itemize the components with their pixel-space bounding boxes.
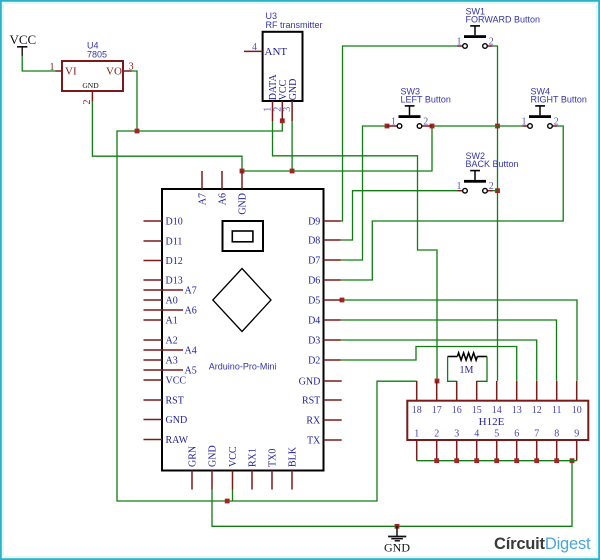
H12E pin 15 (476, 381, 478, 401)
svg-text:3: 3 (454, 428, 459, 439)
right pin D6 (324, 279, 341, 281)
svg-text:GND: GND (82, 81, 99, 90)
H12E pin 4 (476, 440, 478, 461)
svg-text:15: 15 (472, 405, 482, 416)
wire J1 to VCC rail to H12E pin 18 (117, 131, 417, 501)
ground symbol (384, 526, 410, 555)
wire D5 to H12E pin 10 (342, 300, 577, 381)
bottom pin RX1 (251, 471, 253, 490)
svg-text:A6: A6 (185, 305, 197, 316)
right pin D3 (324, 339, 341, 341)
right pin RST (324, 399, 342, 401)
svg-text:RIGHT Button: RIGHT Button (531, 95, 587, 105)
U3 pin 2 VCC (281, 101, 283, 121)
svg-text:GND: GND (299, 376, 321, 387)
resistor 1M (448, 353, 487, 376)
svg-text:2: 2 (489, 37, 494, 48)
left pin A6 (144, 309, 184, 311)
H12E pin 11 (556, 381, 558, 401)
wire VCC to U4 pin1 (22, 56, 56, 72)
svg-text:A1: A1 (166, 315, 178, 326)
left pin D10 (144, 220, 163, 222)
node H12E pin3 (454, 458, 459, 463)
left pin D11 (144, 240, 163, 242)
H12E pin 17 (436, 381, 438, 401)
wire U3 GND pin down to rail (291, 121, 293, 171)
node H12E rail riser (570, 458, 575, 463)
H12E pin 14 (496, 381, 498, 401)
svg-text:H12E: H12E (479, 416, 505, 428)
CircuitDigest logo (494, 535, 591, 553)
bottom pin GND (211, 471, 213, 490)
H12E pin 16 (456, 381, 458, 401)
svg-text:13: 13 (512, 405, 522, 416)
pushbutton SW2 (457, 151, 519, 193)
svg-text:GND: GND (207, 445, 218, 467)
node J1 (135, 129, 140, 134)
svg-text:7: 7 (534, 428, 539, 439)
node U3 VCC pin junction (280, 118, 285, 123)
right pin D2 (324, 359, 341, 361)
wire SW3 pin2 to SW bus (432, 125, 498, 127)
node SW3 pin2 (430, 124, 435, 129)
svg-text:14: 14 (492, 405, 502, 416)
svg-text:D12: D12 (166, 256, 183, 267)
svg-text:D5: D5 (308, 295, 320, 306)
svg-text:VO: VO (106, 66, 122, 78)
left pin A2 (144, 339, 163, 341)
svg-text:TX0: TX0 (267, 449, 278, 467)
wire Arduino GND bottom pin to ground rail (212, 461, 572, 527)
U3 pin 3 GND (291, 101, 293, 121)
svg-text:18: 18 (412, 405, 422, 416)
svg-text:D3: D3 (308, 335, 320, 346)
svg-text:1: 1 (414, 428, 419, 439)
svg-text:16: 16 (452, 405, 462, 416)
svg-text:2: 2 (489, 181, 494, 192)
svg-text:1: 1 (50, 62, 55, 73)
svg-text:D4: D4 (308, 315, 320, 326)
node GND rail at U3 GND (290, 169, 295, 174)
U3 pin 1 DATA (272, 101, 274, 121)
svg-text:RST: RST (166, 395, 184, 406)
svg-text:VI: VI (65, 66, 77, 78)
svg-text:2: 2 (423, 117, 428, 128)
right pin D7 (324, 259, 341, 261)
svg-text:D8: D8 (308, 235, 320, 246)
svg-text:BLK: BLK (287, 446, 298, 467)
svg-text:RST: RST (302, 395, 320, 406)
node SW bus at y190.7 (495, 188, 500, 193)
left pin D12 (144, 260, 163, 262)
H12E pin 1 (416, 440, 418, 461)
wire Arduino VCC bottom pin to +5V rail (232, 489, 234, 501)
svg-text:6: 6 (514, 428, 519, 439)
bottom pin GRN (191, 471, 193, 490)
svg-text:8: 8 (554, 428, 559, 439)
svg-text:3: 3 (282, 107, 293, 112)
node +5V rail junction (225, 499, 230, 504)
svg-text:D6: D6 (308, 275, 320, 286)
node H12E pin2 (434, 458, 439, 463)
svg-text:1: 1 (457, 181, 462, 192)
wire U4 VO to junction J1 (131, 71, 137, 131)
svg-text:D7: D7 (308, 255, 320, 266)
top pin A6 (221, 171, 223, 189)
node ground symbol junction (395, 524, 400, 529)
bottom pin BLK (291, 471, 293, 490)
svg-text:Arduino-Pro-Mini: Arduino-Pro-Mini (209, 361, 277, 371)
H12E pin 7 (536, 440, 538, 461)
wire D9 up to SW1 pin1 (341, 46, 458, 221)
RF transmitter U3 (244, 11, 323, 121)
right pin D8 (324, 239, 341, 241)
svg-text:11: 11 (552, 405, 562, 416)
wire resistor right leg to H12E pin15 (477, 357, 487, 382)
H12E pin 13 (516, 381, 518, 401)
wire resistor left leg to H12E pin16 (448, 357, 457, 382)
right pin D5 (324, 299, 341, 301)
bottom pin VCC (232, 471, 234, 490)
svg-text:1: 1 (522, 117, 527, 128)
right pin RX (324, 419, 342, 421)
svg-text:A7: A7 (197, 193, 208, 205)
svg-text:A7: A7 (185, 285, 197, 296)
svg-text:1: 1 (391, 117, 396, 128)
wire SW2 pin1 to D8 (341, 191, 458, 240)
H12E pin 9 (576, 440, 578, 461)
bottom pin TX0 (271, 471, 273, 490)
svg-text:RX1: RX1 (247, 448, 258, 467)
right pin D9 (324, 220, 341, 222)
pushbutton SW3 (387, 87, 451, 129)
wire SW2 pin2 to SW bus (493, 190, 498, 192)
svg-text:ANT: ANT (265, 46, 288, 58)
H12E pin 3 (456, 440, 458, 461)
svg-text:D2: D2 (308, 355, 320, 366)
H12E pin 5 (496, 440, 498, 461)
wire D3 to H12E pin 12 (341, 340, 537, 381)
right pin GND (324, 380, 342, 382)
svg-text:RAW: RAW (166, 435, 189, 446)
svg-text:17: 17 (432, 405, 442, 416)
svg-text:D10: D10 (166, 216, 183, 227)
encoder H12E (407, 381, 588, 461)
svg-text:VCC: VCC (166, 375, 187, 386)
left pin A0 (144, 299, 163, 301)
ground rail wire to SW3 pin2 (242, 126, 432, 171)
svg-text:9: 9 (574, 428, 579, 439)
wire D4 to H12E pin 11 (341, 320, 557, 381)
left pin RAW (144, 439, 163, 441)
wire H12E address pins ground bus (417, 460, 577, 462)
U4 pin 2 (91, 91, 93, 102)
top pin GND (241, 171, 243, 189)
svg-text:2: 2 (554, 117, 559, 128)
Arduino-Pro-Mini U? (144, 171, 342, 490)
svg-text:GRN: GRN (187, 446, 198, 467)
H12E pin 10 (576, 381, 578, 401)
node H12E pin8 (554, 458, 559, 463)
svg-text:A0: A0 (166, 295, 178, 306)
wire J1 to U3 VCC pin (137, 121, 282, 132)
svg-text:A6: A6 (217, 193, 228, 205)
svg-text:VCC: VCC (10, 32, 37, 47)
wire SW3 pin1 to D7 (341, 126, 387, 260)
svg-text:LEFT Button: LEFT Button (401, 95, 451, 105)
wire SW bus to SW4 pin1 (498, 125, 523, 127)
svg-text:A3: A3 (166, 355, 178, 366)
left pin A5 (144, 369, 184, 371)
svg-text:GND: GND (237, 193, 248, 215)
pushbutton SW1 (457, 7, 541, 49)
wire U3 DATA to H12E pin 17 (273, 121, 438, 381)
node GND rail at x242 (240, 169, 245, 174)
svg-text:A2: A2 (166, 335, 178, 346)
svg-text:4: 4 (252, 42, 257, 53)
power symbol VCC (10, 32, 37, 56)
svg-text:12: 12 (532, 405, 542, 416)
node D5 pin (340, 298, 345, 303)
regulator U4 7805 (50, 41, 134, 105)
left pin A7 (144, 289, 184, 291)
wire D2 to H12E pin 13 (341, 347, 517, 381)
wire U4 pin2 to Arduino top GND pin (92, 101, 242, 171)
svg-text:TX: TX (307, 435, 321, 446)
H12E pin 18 (416, 381, 418, 401)
svg-text:GND: GND (166, 415, 188, 426)
left pin D13 (144, 279, 163, 281)
left pin RST (144, 399, 163, 401)
H12E pin 6 (516, 440, 518, 461)
left pin A4 (144, 349, 184, 351)
svg-text:GND: GND (384, 541, 410, 555)
svg-text:1: 1 (457, 37, 462, 48)
node H12E pin17 junction (435, 379, 440, 384)
U4 pin 1 (56, 70, 63, 72)
left pin A3 (144, 359, 163, 361)
node SW3 pin1 (385, 124, 390, 129)
H12E pin 8 (556, 440, 558, 461)
svg-text:5: 5 (494, 428, 499, 439)
svg-text:BACK Button: BACK Button (466, 159, 519, 169)
svg-text:FORWARD Button: FORWARD Button (466, 15, 541, 25)
svg-text:D9: D9 (308, 216, 320, 227)
node SW bus at y126 (495, 124, 500, 129)
svg-text:GND: GND (288, 79, 299, 101)
diamond symbol (213, 269, 271, 332)
svg-text:7805: 7805 (87, 50, 107, 60)
U4 pin 3 (123, 70, 132, 72)
node H12E pin7 (534, 458, 539, 463)
svg-text:A4: A4 (185, 345, 197, 356)
wire SW1 pin2 down bus (493, 46, 498, 381)
svg-text:A5: A5 (185, 365, 197, 376)
svg-text:D13: D13 (166, 275, 183, 286)
left pin GND (144, 419, 163, 421)
node H12E pin4 (474, 458, 479, 463)
right pin D4 (324, 319, 341, 321)
svg-text:CírcuitDigest: CírcuitDigest (494, 535, 591, 553)
svg-text:RF transmitter: RF transmitter (266, 20, 323, 30)
left pin VCC (144, 379, 163, 381)
svg-text:D11: D11 (166, 236, 183, 247)
node H12E pin6 (514, 458, 519, 463)
left pin A1 (144, 319, 163, 321)
node H12E pin5 (494, 458, 499, 463)
svg-text:RX: RX (306, 415, 321, 426)
pushbutton SW4 (522, 87, 587, 129)
svg-text:4: 4 (474, 428, 479, 439)
top pin A7 (201, 171, 203, 189)
crystal symbol (223, 221, 264, 251)
svg-text:1M: 1M (460, 365, 474, 376)
svg-text:VCC: VCC (228, 446, 239, 467)
svg-text:10: 10 (572, 405, 582, 416)
svg-text:2: 2 (82, 100, 93, 105)
wire SW4 pin2 to D6 (341, 126, 563, 280)
U3 pin 4 ANT (244, 50, 263, 52)
svg-text:2: 2 (434, 428, 439, 439)
H12E pin 12 (536, 381, 538, 401)
right pin TX (324, 439, 342, 441)
H12E pin 2 (436, 440, 438, 461)
